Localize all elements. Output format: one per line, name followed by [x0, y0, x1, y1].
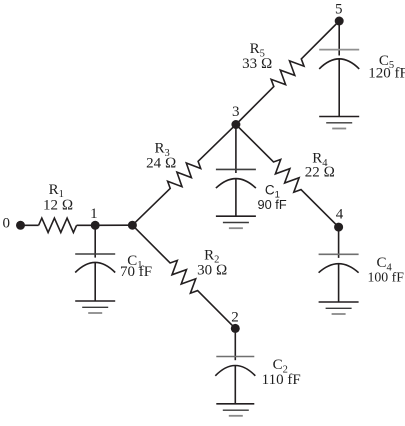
node 0	[16, 221, 25, 230]
svg-text:12 Ω: 12 Ω	[43, 198, 73, 214]
resistor R5	[236, 21, 339, 125]
wire node 0 to resistor R1	[21, 224, 39, 226]
ground of C1 90fF	[216, 216, 256, 228]
svg-text:24 Ω: 24 Ω	[146, 155, 176, 171]
resistor R1	[39, 218, 77, 232]
wire R1 to node 1	[77, 224, 96, 226]
svg-text:110 fF: 110 fF	[262, 372, 301, 388]
node 1	[91, 221, 100, 230]
svg-text:0: 0	[2, 216, 10, 232]
capacitor C4	[319, 227, 359, 302]
ground of C4	[319, 302, 359, 314]
capacitor C1 90fF	[216, 125, 256, 217]
svg-text:5: 5	[335, 2, 343, 18]
resistor R4	[236, 125, 339, 228]
resistor R3	[132, 125, 236, 226]
wire node 1 to junction	[95, 224, 132, 226]
node 5	[335, 17, 344, 26]
svg-text:4: 4	[336, 207, 344, 223]
capacitor C1 70fF	[75, 225, 115, 301]
svg-text:30 Ω: 30 Ω	[197, 262, 227, 278]
capacitor C2	[215, 328, 255, 403]
capacitor C5	[319, 21, 359, 117]
node 4	[334, 223, 343, 232]
svg-text:2: 2	[231, 310, 239, 326]
ground of C2	[216, 404, 254, 416]
svg-text:33 Ω: 33 Ω	[242, 56, 272, 72]
svg-text:22 Ω: 22 Ω	[305, 165, 335, 181]
ground of C5	[319, 117, 359, 129]
resistor R2	[132, 225, 235, 328]
svg-text:3: 3	[232, 104, 240, 120]
svg-text:100 fF: 100 fF	[367, 269, 404, 284]
node 2	[231, 324, 240, 333]
svg-text:120 fF: 120 fF	[368, 65, 405, 81]
svg-text:90 fF: 90 fF	[258, 197, 287, 212]
svg-text:1: 1	[90, 206, 98, 222]
junction after node 1	[128, 221, 137, 230]
svg-text:70 fF: 70 fF	[120, 264, 152, 280]
node 3	[231, 120, 240, 129]
ground of C1 70fF	[75, 301, 115, 313]
